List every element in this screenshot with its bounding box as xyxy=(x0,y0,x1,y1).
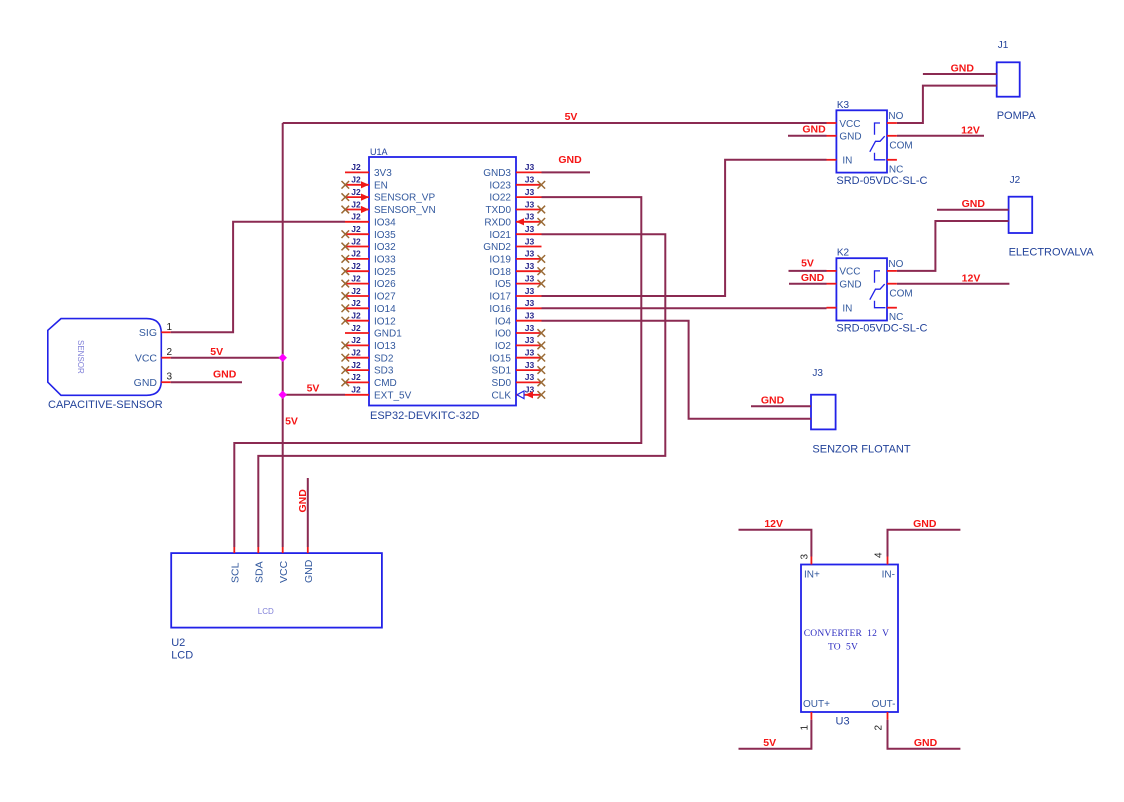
svg-text:5V: 5V xyxy=(285,416,298,428)
svg-text:12V: 12V xyxy=(961,125,980,137)
svg-text:J2: J2 xyxy=(351,273,361,283)
svg-text:3: 3 xyxy=(800,554,811,560)
svg-text:OUT-: OUT- xyxy=(872,699,896,710)
svg-text:LCD: LCD xyxy=(258,607,274,616)
svg-text:J3: J3 xyxy=(525,286,535,296)
svg-text:J2: J2 xyxy=(351,360,361,370)
svg-text:J3: J3 xyxy=(525,360,535,370)
svg-text:J2: J2 xyxy=(351,372,361,382)
svg-text:LCD: LCD xyxy=(171,650,193,662)
svg-text:VCC: VCC xyxy=(839,267,860,278)
svg-text:GND: GND xyxy=(213,369,237,381)
svg-text:J3: J3 xyxy=(525,311,535,321)
svg-text:SENSOR: SENSOR xyxy=(76,340,85,374)
svg-text:12V: 12V xyxy=(962,273,981,285)
svg-text:IN: IN xyxy=(842,304,852,315)
svg-text:IO25: IO25 xyxy=(374,267,396,278)
svg-text:J3: J3 xyxy=(525,372,535,382)
svg-text:SD1: SD1 xyxy=(492,366,512,377)
svg-text:TXD0: TXD0 xyxy=(485,205,511,216)
svg-text:ESP32-DEVKITC-32D: ESP32-DEVKITC-32D xyxy=(370,410,479,422)
svg-text:J3: J3 xyxy=(525,335,535,345)
svg-text:J2: J2 xyxy=(351,261,361,271)
svg-text:OUT+: OUT+ xyxy=(803,699,830,710)
svg-text:IO21: IO21 xyxy=(489,230,511,241)
svg-text:GND: GND xyxy=(297,489,309,513)
svg-text:IO5: IO5 xyxy=(495,279,512,290)
svg-text:IO2: IO2 xyxy=(495,341,512,352)
svg-text:J3: J3 xyxy=(525,298,535,308)
svg-text:J1: J1 xyxy=(998,40,1009,51)
svg-text:J2: J2 xyxy=(351,175,361,185)
svg-text:NC: NC xyxy=(889,312,903,323)
svg-text:3: 3 xyxy=(167,372,173,383)
svg-text:J2: J2 xyxy=(351,212,361,222)
svg-text:2: 2 xyxy=(167,347,173,358)
svg-text:J3: J3 xyxy=(525,236,535,246)
svg-text:IN+: IN+ xyxy=(804,570,820,581)
svg-text:J3: J3 xyxy=(525,348,535,358)
svg-text:J2: J2 xyxy=(351,385,361,395)
svg-text:5V: 5V xyxy=(210,346,223,358)
svg-text:GND1: GND1 xyxy=(374,329,402,340)
svg-text:U2: U2 xyxy=(171,637,185,649)
svg-text:IN-: IN- xyxy=(882,570,895,581)
svg-text:5V: 5V xyxy=(307,383,320,395)
svg-text:GND: GND xyxy=(558,154,582,166)
svg-text:GND3: GND3 xyxy=(483,168,511,179)
svg-text:J2: J2 xyxy=(351,311,361,321)
svg-text:IO23: IO23 xyxy=(489,180,511,191)
svg-text:2: 2 xyxy=(874,725,885,731)
svg-text:GND: GND xyxy=(134,377,158,389)
svg-text:J2: J2 xyxy=(351,236,361,246)
svg-text:GND: GND xyxy=(839,280,861,291)
svg-text:J2: J2 xyxy=(351,335,361,345)
svg-text:CONVERTER 12 V: CONVERTER 12 V xyxy=(804,629,890,639)
svg-text:ELECTROVALVA: ELECTROVALVA xyxy=(1009,247,1095,259)
svg-text:IO14: IO14 xyxy=(374,304,396,315)
svg-text:IO16: IO16 xyxy=(489,304,511,315)
svg-text:NO: NO xyxy=(888,259,903,270)
svg-text:TO 5V: TO 5V xyxy=(828,643,858,653)
svg-text:J2: J2 xyxy=(351,249,361,259)
svg-text:J3: J3 xyxy=(525,261,535,271)
svg-text:CMD: CMD xyxy=(374,378,397,389)
svg-text:J2: J2 xyxy=(351,187,361,197)
svg-text:IO18: IO18 xyxy=(489,267,511,278)
svg-text:SRD-05VDC-SL-C: SRD-05VDC-SL-C xyxy=(836,175,927,187)
svg-text:J2: J2 xyxy=(351,348,361,358)
svg-text:J3: J3 xyxy=(525,224,535,234)
svg-text:IO15: IO15 xyxy=(489,353,511,364)
svg-text:SENZOR FLOTANT: SENZOR FLOTANT xyxy=(812,444,910,456)
svg-text:NC: NC xyxy=(889,164,903,175)
svg-text:EN: EN xyxy=(374,180,388,191)
svg-text:5V: 5V xyxy=(565,111,578,123)
svg-text:IO22: IO22 xyxy=(489,193,511,204)
svg-text:IO27: IO27 xyxy=(374,292,396,303)
svg-text:GND: GND xyxy=(761,395,785,407)
svg-text:5V: 5V xyxy=(763,737,776,749)
svg-text:IO32: IO32 xyxy=(374,242,396,253)
svg-text:GND: GND xyxy=(913,518,937,530)
svg-text:IN: IN xyxy=(842,156,852,167)
svg-text:SRD-05VDC-SL-C: SRD-05VDC-SL-C xyxy=(836,323,927,335)
svg-text:POMPA: POMPA xyxy=(997,110,1037,122)
svg-text:SD3: SD3 xyxy=(374,366,394,377)
svg-text:J2: J2 xyxy=(351,199,361,209)
svg-text:SENSOR_VP: SENSOR_VP xyxy=(374,193,435,204)
svg-text:IO19: IO19 xyxy=(489,255,511,266)
svg-text:3V3: 3V3 xyxy=(374,168,392,179)
svg-text:SDA: SDA xyxy=(254,561,266,583)
svg-text:5V: 5V xyxy=(801,258,814,270)
svg-text:IO33: IO33 xyxy=(374,255,396,266)
svg-text:J2: J2 xyxy=(351,286,361,296)
svg-text:4: 4 xyxy=(874,552,885,558)
svg-text:SD0: SD0 xyxy=(492,378,512,389)
svg-text:U3: U3 xyxy=(836,716,850,728)
svg-text:IO17: IO17 xyxy=(489,292,511,303)
svg-text:J2: J2 xyxy=(351,298,361,308)
svg-text:SCL: SCL xyxy=(230,562,242,583)
svg-text:CAPACITIVE-SENSOR: CAPACITIVE-SENSOR xyxy=(48,399,163,411)
svg-text:VCC: VCC xyxy=(839,119,860,130)
svg-text:IO34: IO34 xyxy=(374,217,396,228)
svg-text:GND: GND xyxy=(802,124,826,136)
svg-text:J3: J3 xyxy=(525,175,535,185)
svg-text:K3: K3 xyxy=(837,100,850,111)
svg-text:J3: J3 xyxy=(525,199,535,209)
svg-text:J2: J2 xyxy=(351,323,361,333)
svg-text:J2: J2 xyxy=(351,224,361,234)
svg-text:J3: J3 xyxy=(525,273,535,283)
svg-text:GND: GND xyxy=(801,272,825,284)
svg-text:CLK: CLK xyxy=(492,390,512,401)
svg-text:EXT_5V: EXT_5V xyxy=(374,390,412,401)
svg-text:VCC: VCC xyxy=(135,352,158,364)
svg-text:SENSOR_VN: SENSOR_VN xyxy=(374,205,436,216)
svg-text:IO4: IO4 xyxy=(495,316,512,327)
svg-text:IO35: IO35 xyxy=(374,230,396,241)
svg-text:GND: GND xyxy=(914,737,938,749)
svg-text:J2: J2 xyxy=(351,162,361,172)
svg-text:J3: J3 xyxy=(525,323,535,333)
svg-text:SIG: SIG xyxy=(139,327,157,339)
svg-text:1: 1 xyxy=(167,322,173,333)
svg-text:J3: J3 xyxy=(525,162,535,172)
svg-text:J3: J3 xyxy=(812,368,823,379)
svg-text:J2: J2 xyxy=(1010,175,1021,186)
svg-text:GND2: GND2 xyxy=(483,242,511,253)
svg-text:IO0: IO0 xyxy=(495,329,512,340)
svg-text:GND: GND xyxy=(839,132,861,143)
svg-text:12V: 12V xyxy=(764,518,783,530)
svg-text:J3: J3 xyxy=(525,249,535,259)
svg-text:COM: COM xyxy=(889,140,912,151)
svg-text:SD2: SD2 xyxy=(374,353,394,364)
svg-text:RXD0: RXD0 xyxy=(484,217,511,228)
svg-text:GND: GND xyxy=(962,198,986,210)
svg-text:IO12: IO12 xyxy=(374,316,396,327)
svg-text:J3: J3 xyxy=(525,187,535,197)
svg-text:GND: GND xyxy=(951,63,975,75)
svg-text:U1A: U1A xyxy=(370,147,388,157)
svg-text:J3: J3 xyxy=(525,212,535,222)
svg-text:NO: NO xyxy=(888,111,903,122)
svg-text:K2: K2 xyxy=(837,248,850,259)
svg-text:IO13: IO13 xyxy=(374,341,396,352)
svg-text:GND: GND xyxy=(303,559,315,583)
svg-text:1: 1 xyxy=(800,725,811,731)
svg-text:VCC: VCC xyxy=(278,560,290,583)
svg-text:COM: COM xyxy=(889,288,912,299)
svg-text:IO26: IO26 xyxy=(374,279,396,290)
